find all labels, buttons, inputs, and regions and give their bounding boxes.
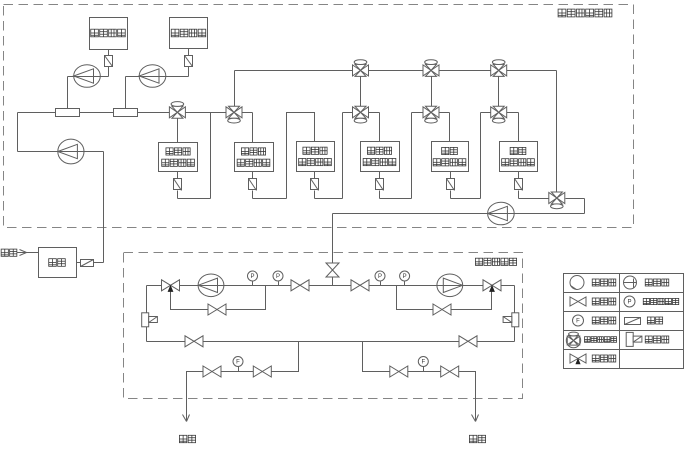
svg-text:P: P: [627, 300, 631, 306]
svg-text:P: P: [378, 274, 382, 280]
svg-text:P: P: [250, 274, 254, 280]
svg-text:F: F: [236, 360, 240, 366]
svg-text:P: P: [276, 274, 280, 280]
svg-text:F: F: [576, 319, 580, 325]
svg-text:F: F: [421, 360, 425, 366]
svg-text:P: P: [403, 274, 407, 280]
